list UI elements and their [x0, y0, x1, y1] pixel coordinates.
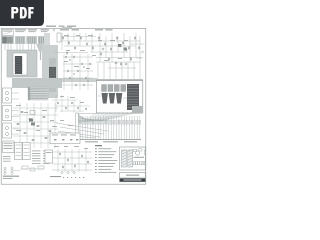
wire horizontal run 8	[54, 52, 88, 54]
IC U201 body stripe	[15, 70, 21, 72]
wire vertical drop 19	[127, 62, 129, 79]
comb pin 2 wire	[82, 116, 84, 139]
flyback winding stripe	[127, 85, 138, 87]
comb pin 22 wire	[134, 116, 136, 139]
fan wire 10	[79, 119, 104, 122]
degauss coil 1 hatch	[122, 155, 126, 157]
ref text 23	[36, 129, 40, 132]
wire centre column 3	[79, 54, 81, 90]
ref text 29	[74, 145, 79, 148]
ref text 19	[24, 111, 28, 114]
IC U201 pin	[21, 69, 24, 71]
resistor R301	[57, 102, 58, 104]
rear jacks label	[3, 176, 19, 177]
wire left column 5	[47, 103, 49, 148]
ribbon connector dark edge	[28, 87, 30, 100]
comb pin 6 wire	[92, 116, 94, 139]
T102 winding	[24, 151, 29, 153]
wire horizontal run 1	[60, 36, 96, 38]
parts list text	[32, 157, 41, 160]
net label text 7	[106, 29, 113, 30]
fan wire 9	[79, 119, 102, 121]
degauss coil 1 hatch	[122, 161, 126, 163]
IC U201 body stripe	[15, 62, 21, 64]
CRT board top band	[96, 79, 143, 82]
IC U201 pin	[21, 63, 24, 65]
jack J3 wire a	[12, 127, 20, 129]
comb pin 11 resistor	[105, 121, 107, 125]
CRT fan wire 9	[99, 113, 132, 122]
ref text 20	[42, 109, 47, 112]
note line 2 dash	[95, 150, 97, 153]
resistor R409	[45, 137, 48, 139]
CRT drive block 2	[108, 85, 113, 92]
dip switch 5	[142, 162, 144, 165]
tuner band pin stripe	[24, 37, 26, 43]
wire low drop 5	[79, 100, 81, 112]
capacitor C402	[67, 171, 69, 173]
resistor R114	[100, 53, 101, 56]
note line 6 dash	[95, 162, 97, 165]
CRT fan wire 6	[94, 113, 120, 122]
comb pin 24 resistor	[139, 121, 141, 125]
wire tuner pin drop	[4, 44, 6, 51]
note line 9 text	[98, 171, 116, 174]
resistor R106	[92, 47, 93, 50]
capacitor C301	[69, 59, 71, 61]
comb pin 2 resistor	[82, 121, 84, 125]
ref text 13	[74, 65, 79, 68]
IC U301 pin stripe	[49, 69, 55, 71]
comb pin 4 resistor	[87, 121, 89, 125]
sub circuit resistor 2	[62, 139, 64, 140]
IC U201 body stripe	[15, 65, 21, 67]
dotted note	[79, 177, 80, 178]
IC U201 pin	[13, 69, 16, 71]
wire bottom column 2	[64, 149, 66, 172]
wire low run 2	[56, 105, 90, 107]
wire vertical drop 15	[103, 62, 105, 79]
wire vertical drop 11	[123, 33, 125, 57]
horizontal bus band	[12, 78, 62, 88]
ribbon connector stripe	[29, 89, 48, 91]
ref text 28	[64, 145, 68, 148]
dip switch 3	[138, 162, 140, 165]
wire centre column 4	[87, 54, 89, 90]
CRT drive block 3	[114, 85, 119, 92]
resistor R203	[81, 63, 82, 65]
wire tuner pin drop	[28, 44, 30, 51]
wire tuner pin drop	[10, 44, 12, 51]
tuner band pin stripe	[21, 37, 23, 43]
resistor R108	[104, 43, 105, 46]
wire far right run	[130, 43, 145, 45]
power box outline	[45, 150, 53, 163]
resistor R501	[59, 153, 60, 155]
T102 winding	[24, 144, 29, 146]
comb pin 13 wire	[110, 116, 112, 139]
tuner band pin stripe	[10, 37, 12, 43]
capacitor C304	[87, 80, 89, 82]
ribbon connector stripe	[29, 96, 48, 98]
PDF badge	[0, 0, 44, 26]
resistor R102	[68, 42, 69, 45]
comb pin 21 wire	[131, 116, 133, 139]
ref text 22	[16, 129, 21, 132]
jack panel J3 box	[3, 123, 12, 138]
title block divider	[120, 176, 146, 178]
node dot A	[53, 29, 55, 31]
main board label text	[4, 144, 13, 147]
sub circuit resistor 3	[70, 139, 72, 140]
note line 4 dash	[95, 156, 97, 159]
fan wire 2	[79, 115, 86, 120]
capacitor C202	[125, 49, 127, 51]
transistor Q102 cluster	[124, 48, 127, 51]
dip switch 6	[144, 162, 146, 165]
CRT gun element 3	[116, 93, 122, 104]
wire low drop 2	[61, 95, 63, 112]
degauss coil 1	[122, 150, 127, 167]
CRT gun element 1	[102, 93, 108, 104]
resistor R402	[29, 118, 32, 120]
resistor R110	[116, 37, 117, 40]
resistor R109	[110, 48, 111, 51]
jack J1 socket b	[6, 98, 9, 101]
left small text	[3, 160, 11, 163]
tuner band gap	[14, 36, 15, 43]
resistor R103	[74, 47, 75, 50]
ref text 30	[84, 147, 88, 150]
wire left row 6	[13, 142, 58, 144]
header text small	[62, 26, 72, 29]
tuner band pin stripe	[26, 37, 28, 43]
sub circuit resistor 1	[54, 139, 56, 140]
degauss coil 2 hatch	[128, 161, 132, 163]
note line 5 dash	[95, 159, 97, 162]
ref text 8	[80, 49, 85, 52]
comb left cap box	[76, 113, 79, 140]
comb pin 9 wire	[100, 116, 102, 139]
wire tuner pin drop	[42, 44, 44, 51]
sub circuit text	[52, 134, 58, 137]
IC U201 body stripe	[15, 60, 21, 62]
resistor R104	[80, 37, 81, 40]
IC U201 pin	[21, 70, 24, 72]
comb pin 20 wire	[128, 116, 130, 139]
jack J1 wire b	[12, 98, 20, 100]
comb pin 1 wire	[79, 116, 81, 139]
label box text	[3, 30, 12, 33]
IC U301 pin stripe	[49, 77, 55, 79]
capacitor C204	[125, 63, 127, 65]
comb pin 19 wire	[126, 116, 128, 139]
fan wire 6	[79, 118, 95, 120]
main board label text	[4, 142, 13, 145]
tuner band pin stripe	[31, 37, 33, 43]
left small text	[3, 155, 11, 158]
resistor R302	[65, 107, 66, 109]
CRT drive block 1	[102, 85, 107, 92]
wire low run 3	[60, 110, 84, 112]
title block text	[126, 175, 139, 176]
dip switch 4	[140, 162, 142, 165]
parts list text	[43, 150, 50, 153]
wire harness drop	[40, 52, 42, 60]
parts list text	[43, 157, 50, 160]
comb pin 21 resistor	[131, 121, 133, 125]
fan wire 5	[79, 117, 93, 120]
dip switch 1	[134, 162, 136, 165]
IC U301 pin stripe	[49, 75, 55, 77]
jack J2 wire a	[12, 110, 20, 112]
resistor R107	[98, 37, 99, 40]
comb pin 10 resistor	[103, 121, 105, 125]
speaker coil turn 1	[4, 167, 6, 169]
comb label text 2	[103, 141, 118, 142]
wire left column 6	[54, 103, 56, 148]
header text left	[46, 26, 56, 27]
vertical bus band core	[49, 58, 56, 92]
note line 8 dash	[95, 168, 97, 171]
comb pin 11 wire	[105, 116, 107, 139]
CRT gun element 2	[109, 93, 115, 104]
CRT fan wire 7	[95, 113, 123, 122]
wire tuner pin drop	[7, 44, 9, 51]
CRT fan wire 10	[101, 113, 137, 122]
resistor R304	[77, 107, 78, 109]
comb pin 17 wire	[121, 116, 123, 139]
fuse F901	[144, 150, 146, 155]
CRT drive block 4	[121, 85, 126, 92]
tuner band pin stripe	[17, 37, 19, 43]
comb pin 22 resistor	[134, 121, 136, 125]
wire vertical drop 16	[109, 62, 111, 79]
note line 1 text	[98, 147, 111, 150]
ribbon connector stripe	[29, 94, 48, 96]
comb pin 17 resistor	[121, 121, 123, 125]
T101 winding	[16, 144, 22, 146]
sub circuit box	[50, 133, 80, 144]
parts list text	[43, 162, 50, 165]
fan wire 1	[79, 114, 84, 120]
ref text 14	[86, 67, 90, 70]
resistor R116	[120, 63, 121, 66]
IC U201 pin	[21, 72, 24, 74]
wire left row 2	[13, 114, 58, 116]
CRT fan wire 4	[90, 113, 111, 122]
IC U301 pin stripe	[49, 73, 55, 75]
resistor R209	[75, 84, 76, 86]
resistor R408	[17, 123, 20, 125]
comb pin 15 resistor	[116, 121, 118, 125]
title block dark band	[120, 178, 146, 181]
relay block 2	[139, 149, 142, 151]
wire centre row 1	[63, 56, 93, 58]
posistor label TY-52U OS	[134, 157, 145, 158]
IC U201 pin	[21, 56, 24, 58]
fan wire 8	[79, 118, 100, 121]
PDF badge label letter D	[20, 7, 27, 19]
flyback winding stripe	[127, 90, 138, 92]
ref text 24	[52, 125, 57, 128]
wire vertical drop 4	[79, 33, 81, 46]
comb pin 23 wire	[136, 116, 138, 139]
wire tuner pin drop	[16, 44, 18, 51]
note line 3 dash	[95, 153, 97, 156]
wire horizontal run 2	[58, 40, 140, 42]
parts list text	[32, 150, 41, 153]
wire centre column 2	[71, 54, 73, 90]
wire vertical drop 5	[85, 33, 87, 41]
wire centre row 2	[63, 63, 93, 65]
comb pin 24 wire	[139, 116, 141, 139]
relay block	[134, 149, 137, 151]
main board label box	[3, 141, 15, 153]
tuner band pin stripe	[8, 37, 10, 43]
tuner band pin stripe	[41, 37, 43, 43]
degauss coil 1 hatch	[122, 164, 126, 166]
shielded IF module	[7, 50, 37, 77]
flyback winding stripe	[127, 88, 138, 90]
wire vertical drop 12	[129, 36, 131, 62]
notes header	[95, 145, 102, 146]
ref text 17	[80, 101, 84, 104]
note line 3 text	[98, 153, 114, 156]
wire vertical drop 20	[133, 62, 135, 79]
resistor R206	[77, 70, 78, 72]
rear jack component 1	[22, 166, 28, 169]
CRT fan wire 8	[97, 113, 128, 122]
note line 2 text	[98, 150, 116, 153]
tuner band gap	[25, 36, 26, 43]
resistor R405	[43, 116, 46, 118]
wire left column 1	[19, 103, 21, 148]
tuner band pin stripe	[13, 37, 15, 43]
net label text 2	[28, 29, 37, 30]
wire tuner pin drop	[31, 44, 33, 51]
wire vertical drop 9	[111, 33, 113, 62]
IC U201 body stripe	[15, 58, 21, 60]
jack J2 wire b	[12, 116, 20, 118]
wire bottom row 4	[52, 169, 92, 171]
comb pin 3 wire	[84, 116, 86, 139]
wire horizontal run 5	[96, 57, 142, 59]
resistor R105	[86, 43, 87, 46]
cross board wire 2	[58, 131, 100, 137]
resistor R140	[138, 47, 139, 50]
resistor R404	[24, 132, 27, 134]
capacitor C302	[83, 66, 85, 68]
wire vertical drop 18	[121, 62, 123, 79]
net label text 3	[41, 29, 50, 30]
speaker coil turn 3	[4, 172, 6, 174]
wire vertical drop 14	[97, 62, 99, 79]
resistor R204	[89, 63, 90, 65]
comb pin 20 resistor	[129, 121, 131, 125]
wire tuner pin drop	[39, 44, 41, 51]
wire left column 4	[40, 103, 42, 148]
sub circuit resistor 4	[76, 139, 78, 140]
wire far right stub	[136, 57, 143, 59]
ref text 3	[88, 34, 93, 37]
degauss coil 2 hatch	[128, 164, 132, 166]
IF module window	[13, 53, 27, 75]
diode D201	[30, 111, 35, 115]
comb pin 5 resistor	[90, 121, 92, 125]
IC U201 pin	[13, 58, 16, 60]
ref text 11	[118, 57, 122, 60]
wire low drop 3	[67, 96, 69, 111]
degauss coil 2 hatch	[128, 158, 132, 160]
tuner band pin stripe	[15, 37, 17, 43]
wire centre column 1	[63, 54, 65, 90]
speaker coil turn 6	[11, 172, 13, 174]
IC U201 pin	[13, 56, 16, 58]
wire left row 5	[13, 135, 58, 137]
IC U201 pin	[13, 65, 16, 67]
resistor R117	[130, 58, 131, 61]
comb pin 13 resistor	[110, 121, 112, 125]
ref text 25	[60, 119, 64, 122]
net label text 5	[72, 29, 80, 30]
speaker wire	[13, 170, 20, 172]
fan wire 7	[79, 119, 97, 121]
resistor R504	[81, 155, 82, 157]
ref text 27	[54, 145, 59, 148]
ref text 5	[110, 39, 115, 42]
IC U201 (IF amp)	[15, 56, 22, 74]
CRT fan wire 3	[88, 113, 106, 122]
comb pin 18 resistor	[123, 121, 125, 125]
tuner band pin stripe	[28, 37, 30, 43]
resistor R202	[73, 56, 74, 58]
comb pin 3 resistor	[84, 121, 86, 125]
degauss coil 2 hatch	[128, 155, 132, 157]
tuner band pin stripe	[11, 37, 13, 43]
note line 4 text	[98, 156, 112, 159]
wire centre row 5	[63, 84, 93, 86]
wire horizontal run 4	[90, 51, 128, 53]
ref text 10	[104, 59, 109, 62]
wire far right drop	[139, 36, 141, 58]
cross board wire 3	[62, 135, 96, 138]
tuner band pin stripe	[4, 37, 6, 43]
comb pin 8 resistor	[97, 121, 99, 125]
comb pin 15 wire	[115, 116, 117, 139]
resistor R208	[69, 77, 70, 79]
wire low run 1	[52, 99, 78, 101]
tuner module dark cell 2	[7, 37, 13, 44]
PDF badge label letter F	[28, 7, 33, 19]
header text right	[67, 26, 76, 27]
ribbon connector stripe	[29, 92, 48, 94]
net label text 1 row2	[16, 30, 25, 33]
capacitor C303	[73, 73, 75, 75]
resistor R201	[65, 56, 66, 58]
comb pin 4 wire	[87, 116, 89, 139]
vertical bus band main	[42, 45, 58, 98]
ref text 15	[60, 95, 64, 98]
net label text 6	[95, 29, 103, 30]
jack J2 socket a	[6, 109, 9, 112]
comb pin 16 resistor	[118, 121, 120, 125]
rear jacks label 2	[3, 177, 13, 180]
wire vertical drop 8	[105, 36, 107, 57]
dotted note	[67, 177, 68, 178]
wire vertical drop 13	[135, 33, 137, 57]
degauss coil 1 hatch	[122, 150, 126, 152]
